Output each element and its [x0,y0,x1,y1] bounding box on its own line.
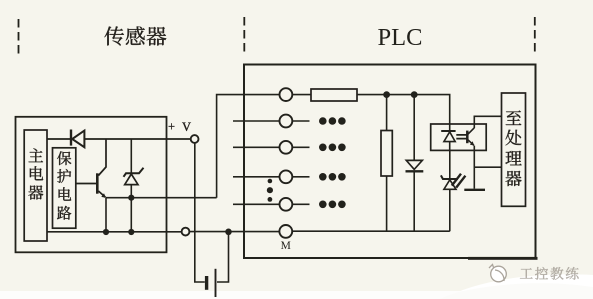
ground (signal common) [464,189,485,191]
junction: top rail / D2 column [411,91,418,98]
internal circuit dots rows 2-5 [292,120,309,122]
label: 传感器 (sensor) [104,26,124,45]
optocoupler LED [449,124,451,131]
optocoupler phototransistor [466,131,469,144]
svg-text:+: + [168,120,175,134]
junction: zener-0V node [128,229,134,235]
wire: row1 circle to input resistor [292,94,311,96]
TVS / zener diode D3 (surge absorber) [449,150,451,231]
wire: sensor output (emitter node to PLC row 1) [106,198,217,232]
TVS breakdown slashes [452,174,466,188]
junction: top rail / R2 column [383,91,390,98]
svg-text:M: M [281,240,291,252]
terminal M circle [279,225,292,238]
watermark logo [489,265,506,282]
transistor Q1 (NPN output) [98,139,106,176]
boundary dashed line (middle) [243,17,245,53]
wire: internal 0V bottom rail [292,230,450,232]
label: 主电器 [29,148,44,162]
PLC enclosure box [244,65,536,259]
junction: battery return node [225,229,232,236]
wire: opto collector to processor box [474,116,501,128]
input terminal circles X0..X4 [280,88,293,101]
junction: zener-output node [128,195,134,201]
diode D1 (reverse polarity protection) [70,130,72,146]
main device box (主电器) [24,130,47,241]
label: 保护电路 [57,151,71,165]
label: 至处理器 [506,110,522,125]
resistor R1 (input, horizontal) [311,89,357,101]
battery B1 [205,276,208,290]
wire: +V down to battery [195,143,205,282]
optocoupler U1 box [431,124,487,150]
svg-text:PLC: PLC [378,24,423,51]
boundary dashed line (left) [18,19,20,55]
wire: opto emitter node [474,146,501,189]
sensor enclosure box [16,117,167,253]
terminal: 0V [182,228,190,236]
watermark swoosh [440,279,593,299]
resistor R2 (vertical divider) [386,95,388,232]
wire: +V rail from 主电器 to +V terminal [47,138,190,140]
processor interface box (至处理器) [502,93,526,206]
zener diode ZD1 [130,139,132,173]
wire: top rail [357,95,450,124]
vertical ellipsis (more inputs) [268,179,273,184]
terminal: +V [191,135,199,143]
PLC box bottom edge (heavier segment) [468,257,538,260]
diode D2 (clamp, vertical) [413,95,415,232]
junction: emitter-0V node [103,229,109,235]
input terminal stub wires (rows 2-5, left) [233,120,279,122]
wire: battery return [217,232,229,282]
wire: output riser to PLC input row 1 [217,95,280,198]
wire: 0V rail [47,231,279,233]
svg-text:V: V [182,120,191,134]
watermark text 工控教练 [520,268,533,278]
optocoupler light coupling marks [456,135,466,139]
boundary dashed line (right) [534,17,536,53]
protection circuit box (保护电路) [53,148,76,228]
